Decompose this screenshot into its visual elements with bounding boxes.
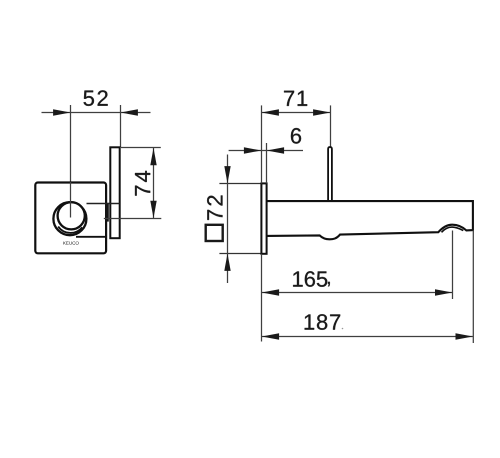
ext line 52 right [120,105,122,147]
knob inner circle [58,202,85,229]
knob mid arc [58,227,82,233]
front strip (6mm plate) [261,183,266,253]
dim 6 line [229,150,303,152]
ext line 52 left (down to knob centre) [70,105,72,182]
dim 165 line [262,292,453,294]
ext line 165 right (aerator) [452,231,454,300]
square escutcheon plate [35,183,106,254]
dim 6 text [291,128,301,144]
ext line x=266.6 above figure [266,143,268,183]
dim 187 line [262,336,473,338]
dim 74 text (rotated) [135,171,150,196]
KEUCO logo [63,241,78,244]
dim sq72 vertical line (doubles as plate left edge) [227,155,229,284]
aerator inner arc [442,227,464,232]
ext line x=261.4 above figure [261,105,263,183]
dim 165 text [293,271,327,287]
dim 71 line [262,112,331,114]
dim 52 text [84,90,108,106]
dim 71 text [284,91,307,106]
dim 74 line [153,148,155,219]
side plate [110,147,119,238]
shaft top line [87,203,120,205]
knob outer circle [53,202,86,235]
ext line 187 right (spout tip edge continued) [472,230,474,343]
ext line lever (71 right) [330,105,332,146]
sq72 text: 72 rotated [207,195,222,219]
dim 187 text [305,314,341,330]
dim 52 line [42,112,151,114]
ext line x=261.4 below figure [261,254,263,342]
dim 74 top extension [121,147,161,149]
wall plate thin outline [219,183,261,185]
connector dark block [105,203,109,222]
ext line 52 left, segment to knob centre [70,182,72,218]
spout outline [267,201,473,239]
shaft bottom line / 74 bottom extension [104,218,162,220]
knob bottom tangent line [76,236,106,238]
lever [328,147,332,202]
sq72 text: square symbol [206,225,223,241]
